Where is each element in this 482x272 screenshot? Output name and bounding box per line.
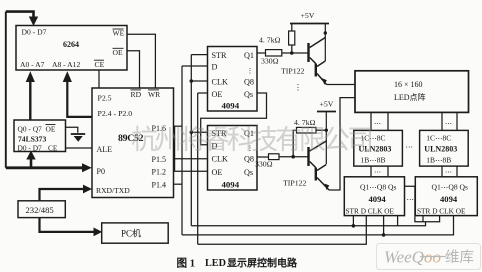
svg-text:⋯: ⋯ (445, 169, 452, 177)
svg-text:4094: 4094 (440, 194, 458, 204)
wire: left data bus vertical (5, 12, 7, 168)
wire: 232/485 to PC with arrow (40, 218, 95, 232)
svg-text:⋯: ⋯ (406, 142, 414, 151)
svg-text:STR: STR (212, 51, 228, 60)
wire: STR1 stub (191, 54, 207, 56)
svg-text:4094: 4094 (369, 194, 387, 204)
svg-text:ULN2803: ULN2803 (424, 145, 457, 154)
svg-text:图 1: 图 1 (177, 257, 196, 269)
svg-text:CE: CE (48, 144, 58, 153)
wire: OE1' drop (397, 216, 399, 226)
wire: P1.5 to CLK2 (174, 158, 208, 160)
svg-text:OE: OE (113, 48, 123, 57)
driver U4 ULN2803 (354, 130, 403, 166)
wire: 330 ohm to T2 base (279, 156, 308, 158)
wire: 74LS373 OE to ground (66, 127, 78, 133)
wire: P1.2 to OE2 (174, 170, 208, 172)
node CLK1' junction (382, 233, 386, 237)
wire: STR-net vertical x191 (190, 55, 192, 226)
svg-text:D0 - D7: D0 - D7 (18, 144, 43, 153)
wire: OE1 stub (198, 92, 208, 94)
svg-text:16 × 160: 16 × 160 (394, 80, 423, 89)
svg-text:CLK: CLK (212, 78, 228, 87)
mcu U1 89C52 (92, 88, 174, 198)
PC box (102, 223, 169, 243)
svg-text:Q8: Q8 (244, 78, 254, 87)
svg-text:OE: OE (212, 90, 223, 99)
svg-text:+5V: +5V (320, 100, 334, 109)
svg-text:74LS373: 74LS373 (18, 135, 46, 144)
wire: 4.7k stubs row1 (291, 24, 293, 54)
wire: LED to ULN2 stubs (442, 112, 457, 130)
wire: 232/485 to RXD/TXD with arrow (40, 189, 84, 201)
svg-text:⋯: ⋯ (445, 120, 452, 128)
shift register U2 4094 (rows, upper) (208, 47, 258, 112)
svg-text:⋯: ⋯ (407, 195, 415, 204)
svg-text:OE: OE (212, 168, 223, 177)
svg-text:P0: P0 (97, 167, 105, 176)
svg-text:⋮: ⋮ (247, 67, 254, 75)
wire: CLK1 stub (191, 80, 207, 82)
svg-text:Q0 - Q7: Q0 - Q7 (18, 124, 43, 133)
svg-text:Q1⋯Q8 Qs: Q1⋯Q8 Qs (360, 183, 397, 192)
svg-text:P1.2: P1.2 (152, 168, 166, 177)
node base2 junction (291, 155, 295, 159)
wire: 6264 CE to 89C52 P2.5 (98, 70, 100, 88)
interface 232/485 (18, 201, 65, 218)
wire: 6264 OE to 89C52 RD (127, 51, 140, 88)
node STR2 junction (190, 130, 194, 134)
+5V rail row2 (317, 111, 336, 113)
transistor Q1 TIP122 darlington (307, 38, 327, 85)
svg-text:TIP122: TIP122 (283, 179, 306, 188)
wire: D1 stub (182, 65, 208, 67)
svg-text:⋮: ⋮ (294, 83, 302, 92)
svg-text:STR D CLK OE: STR D CLK OE (417, 206, 466, 215)
wire: P1.6 link (174, 125, 183, 127)
resistor R2 330 ohm row1 (266, 50, 282, 56)
wire: 4.7k row2 right leg (316, 129, 326, 131)
wire: emitter row1 to LED matrix (327, 84, 356, 86)
wire: P0 bus with arrow (6, 166, 83, 169)
wire: CLK1' drop (383, 216, 385, 235)
wire: 6264 WE to 89C52 WR (127, 34, 155, 87)
svg-text:+5V: +5V (301, 11, 315, 20)
svg-text:WR: WR (148, 90, 161, 99)
svg-text:STR D CLK OE: STR D CLK OE (346, 206, 395, 215)
wire: OE-net vertical x197.7 (197, 93, 199, 244)
svg-text:RD: RD (131, 90, 142, 99)
svg-text:D0 - D7: D0 - D7 (22, 27, 47, 36)
svg-text:P1.4: P1.4 (152, 181, 166, 190)
shift register U6 4094 (columns left) (344, 177, 404, 216)
svg-text:Q1: Q1 (244, 51, 254, 60)
wire: bus3 D bottom bus (198, 216, 367, 245)
svg-text:P1.5: P1.5 (152, 155, 166, 164)
svg-text:330Ω: 330Ω (261, 57, 279, 66)
wire: Q1 to 330 ohm row1 (257, 52, 266, 54)
wire: emitter row2 to LED matrix (329, 98, 355, 190)
svg-text:4094: 4094 (222, 179, 240, 189)
wire: bus2 CLK bottom bus (182, 216, 454, 235)
svg-text:1B⋯8B: 1B⋯8B (426, 155, 451, 164)
node CLK1 junction (190, 79, 194, 83)
wire: P1.6-P1.2 vertical link (174, 126, 176, 171)
svg-text:⋯: ⋯ (374, 120, 381, 128)
svg-text:D: D (212, 63, 218, 72)
svg-text:WE: WE (113, 29, 125, 38)
wire: top hook into 6264 D0-D7 (6, 12, 34, 18)
wire: ULN2 to 4094 stubs (442, 166, 457, 177)
node STR1' junction (352, 224, 356, 228)
svg-text:CLK: CLK (212, 154, 228, 163)
wire: P2.4-P2.0 arrow up into 6264 A8-A12 (67, 81, 92, 117)
wire: D-net vertical x182 (181, 66, 183, 235)
svg-text:显示屏控制电路: 显示屏控制电路 (227, 256, 298, 269)
svg-text:维库: 维库 (445, 249, 474, 266)
wire: collector rail row2 (325, 112, 327, 165)
svg-text:杭州将睿科技有限公司: 杭州将睿科技有限公司 (131, 125, 371, 155)
+5V rail row1 (290, 23, 329, 25)
svg-text:Q8: Q8 (244, 154, 254, 163)
svg-text:232/485: 232/485 (26, 205, 54, 215)
node base1 junction (290, 51, 294, 55)
svg-text:Qs: Qs (244, 90, 253, 99)
shift register U7 4094 (columns right) (415, 177, 477, 216)
wire: 4.7k row2 left leg (293, 130, 296, 157)
svg-text:4094: 4094 (222, 100, 240, 110)
wire: 74LS373 Q0-Q7 arrow up into 6264 A0-A7 (29, 81, 31, 120)
svg-text:Qs: Qs (244, 168, 253, 177)
shift register U3 4094 (rows, lower) (208, 126, 258, 191)
latch U9 74LS373 (14, 120, 66, 152)
svg-text:1B⋯8B: 1B⋯8B (361, 155, 386, 164)
svg-text:TIP122: TIP122 (281, 67, 304, 76)
svg-text:LED: LED (205, 258, 226, 269)
resistor R1 4.7k row1 (289, 31, 295, 45)
svg-text:WeeQ: WeeQ (384, 248, 424, 267)
transistor Q2 TIP122 darlington (307, 141, 329, 190)
svg-text:A0 - A7: A0 - A7 (20, 60, 45, 69)
wire: STR1' drop (352, 216, 354, 226)
svg-text:6264: 6264 (63, 40, 79, 49)
wire: 74LS373 CE to 89C52 ALE (66, 147, 93, 149)
svg-text:ALE: ALE (97, 145, 113, 154)
wire: STR2 stub (191, 131, 207, 133)
wire: Qs1' to D2' chain (405, 186, 440, 221)
svg-text:A8 - A12: A8 - A12 (52, 60, 80, 69)
svg-text:P2.4 - P2.0: P2.4 - P2.0 (98, 109, 133, 118)
wire: collector rail row1 (324, 24, 326, 62)
wire: STR2' drop (422, 216, 424, 222)
svg-text:LED点阵: LED点阵 (394, 92, 426, 102)
driver U5 ULN2803 (420, 130, 469, 166)
LED matrix box (355, 71, 469, 113)
svg-text:CE: CE (95, 60, 105, 69)
svg-text:RXD/TXD: RXD/TXD (96, 186, 130, 195)
wire: LED to ULN1 stubs (371, 112, 388, 130)
resistor R4 330 ohm row2 (269, 154, 280, 160)
wire: bus1 STR bottom bus (191, 222, 425, 226)
svg-text:Q1⋯Q8 Qs: Q1⋯Q8 Qs (432, 183, 469, 192)
svg-text:1C⋯8C: 1C⋯8C (426, 134, 451, 143)
svg-text:330Ω: 330Ω (255, 160, 273, 169)
watermark WeeQoo badge (377, 244, 481, 270)
resistor R3 4.7k row2 (297, 127, 317, 133)
wire: P0 branch arrow up into 74LS373 D0-D7 (30, 159, 33, 170)
wire: ULN1 to 4094 stubs (371, 166, 388, 177)
memory U8 6264 (16, 26, 127, 71)
svg-text:OE: OE (46, 124, 56, 133)
svg-text:PC机: PC机 (121, 228, 141, 239)
wire: Q8 to 330 ohm row2 (257, 156, 269, 158)
svg-text:⋯: ⋯ (374, 169, 381, 177)
wire: 330 ohm to T1 base (282, 52, 308, 54)
svg-text:4. 7kΩ: 4. 7kΩ (259, 36, 281, 45)
wire: Qs1 to D2 chain (201, 93, 267, 145)
svg-text:P2.5: P2.5 (98, 93, 112, 102)
wire: P1.4 stub (174, 183, 183, 185)
ground (71, 133, 85, 135)
